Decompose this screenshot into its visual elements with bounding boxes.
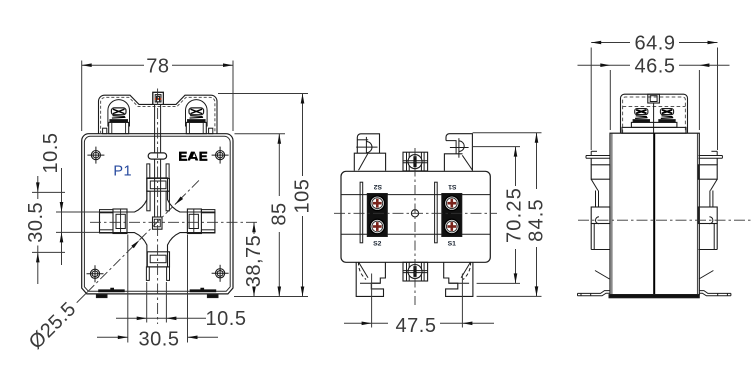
svg-text:10.5: 10.5 — [40, 133, 62, 174]
centre pilot circle — [411, 210, 418, 217]
cover right ear — [209, 128, 213, 134]
mounting screw top-left — [91, 151, 100, 160]
body parting line lower — [341, 233, 490, 235]
svg-text:105: 105 — [292, 179, 314, 214]
horizontal centre line — [90, 221, 258, 223]
side view top block — [648, 94, 660, 103]
svg-text:78: 78 — [146, 56, 169, 78]
diagonal centre line for diameter — [87, 180, 199, 292]
svg-text:10.5: 10.5 — [206, 308, 247, 330]
dimension 46,5 (side top) — [609, 70, 611, 130]
svg-text:P1: P1 — [113, 164, 132, 180]
CT main body outline (front view) — [82, 134, 233, 294]
side view terminal box — [621, 94, 688, 133]
svg-text:S2: S2 — [373, 183, 382, 190]
clamp slider shaft (lower) — [154, 159, 156, 217]
dimension 84,5 (right of top view) — [473, 132, 542, 134]
dimension 30,5 (left) — [37, 176, 39, 199]
bottom foot bar right — [190, 288, 217, 292]
terminal S1 block — [442, 194, 462, 237]
dimension 38,75 (right) — [253, 222, 255, 234]
terminal S1 upper screw — [445, 196, 460, 211]
mounting screw bottom-left — [90, 269, 99, 278]
top clamp block — [147, 178, 170, 191]
svg-text:30.5: 30.5 — [139, 329, 180, 351]
terminal S2 side plate — [360, 182, 363, 243]
side screw left — [635, 109, 648, 115]
left clamp block — [113, 209, 127, 234]
right P-terminal terminal washer plate — [188, 120, 206, 123]
din clip bottom-left — [356, 262, 385, 296]
side view dashed shelf line — [623, 106, 686, 108]
side body chamfer left — [595, 271, 610, 280]
cover centre screw red mark — [155, 98, 162, 100]
svg-text:30.5: 30.5 — [25, 202, 47, 243]
side rail left — [586, 151, 610, 249]
bottom snap tab right — [207, 295, 218, 298]
left P-terminal terminal pedestal — [109, 122, 129, 133]
side view terminal box dashed inner — [623, 97, 686, 133]
top centre fixing block — [403, 152, 428, 171]
side foot flange left — [578, 291, 610, 296]
bottom clamp block — [147, 252, 169, 267]
svg-text:85: 85 — [268, 202, 290, 225]
right clamp block — [187, 209, 201, 234]
side foot flange right — [699, 291, 731, 296]
side shelf base — [622, 127, 686, 133]
dimension 105 (right) — [218, 93, 308, 95]
svg-text:S1: S1 — [448, 183, 457, 190]
side body bottom thick base — [609, 295, 699, 298]
din clip bottom-right — [444, 262, 473, 296]
terminal S2 lower screw — [370, 219, 385, 234]
dimension 70,25 (right of top view) — [473, 146, 520, 148]
top-view body outline — [341, 171, 490, 262]
cover left ear — [103, 128, 107, 134]
din clip top-right — [446, 134, 472, 171]
side screw shelf — [631, 122, 677, 127]
terminal cover inner dashed line — [101, 97, 215, 133]
dimension 10,5 (left) — [32, 191, 65, 193]
terminal cover outline (solid) — [99, 92, 218, 133]
svg-text:84.5: 84.5 — [525, 198, 547, 242]
slider end block — [153, 217, 163, 229]
right clamp legs — [201, 210, 215, 213]
svg-text:S2: S2 — [373, 241, 382, 248]
dimension 30,5 (bottom) — [127, 235, 129, 343]
cable window opening — [100, 178, 215, 267]
din clip top-left — [354, 134, 385, 171]
svg-text:Ø25.5: Ø25.5 — [25, 298, 81, 354]
side body inner edge lines — [611, 133, 613, 294]
left P-terminal terminal washer plate — [110, 120, 128, 123]
clamp slider shaft (upper) — [154, 104, 156, 152]
left P-terminal terminal screw head — [111, 108, 126, 115]
left clamp legs — [100, 210, 114, 213]
slider side bracket left — [147, 164, 150, 179]
right P-terminal terminal screw head — [189, 108, 204, 115]
right P-terminal terminal arch — [186, 100, 208, 127]
cover centre screw block — [153, 92, 164, 104]
terminal S2 upper screw — [370, 196, 385, 211]
right P-terminal terminal spring washer — [190, 115, 202, 118]
terminal S1 lower screw — [445, 219, 460, 234]
bottom foot bar left — [98, 288, 124, 292]
slider side bracket right — [166, 164, 169, 179]
clamp slider knob — [148, 153, 166, 159]
dimension 78 (top) — [81, 61, 83, 132]
dimension 10,5 (bottom) — [146, 282, 148, 323]
svg-text:64.9: 64.9 — [635, 33, 676, 55]
side centre stem — [653, 103, 655, 133]
svg-text:70.25: 70.25 — [504, 187, 526, 243]
dimension 85 (right) — [235, 133, 286, 135]
svg-text:38,75: 38,75 — [243, 235, 265, 288]
left P-terminal terminal spring washer — [113, 115, 125, 118]
side view horizontal centre line — [578, 219, 751, 221]
top-view horizontal centre line — [334, 212, 497, 214]
mounting screw bottom-right — [216, 269, 225, 278]
top-view vertical centre line — [414, 148, 416, 305]
body parting line upper — [341, 194, 490, 196]
side view main body — [610, 133, 699, 294]
diameter leader solid segment — [77, 292, 88, 303]
svg-text:47.5: 47.5 — [396, 315, 437, 337]
side rail right — [698, 151, 722, 249]
dimension 64,9 (side top) — [590, 48, 592, 151]
terminal S2 block — [367, 194, 387, 237]
terminal S1 side plate — [435, 182, 438, 243]
diameter arrow upper — [175, 197, 183, 205]
EAE logo — [179, 152, 207, 161]
vertical centre line — [157, 89, 159, 325]
bottom centre fixing block — [403, 262, 428, 281]
left P-terminal terminal arch — [108, 100, 130, 127]
svg-text:S1: S1 — [448, 241, 457, 248]
svg-text:46.5: 46.5 — [635, 56, 676, 78]
side body chamfer right — [699, 271, 714, 280]
body inner wall line — [84, 136, 230, 291]
top clamp legs — [147, 191, 150, 211]
mounting screw top-right — [216, 151, 225, 160]
dimension 47,5 (bottom of top view) — [371, 274, 373, 328]
diameter arrow lower — [131, 240, 139, 248]
bottom clamp legs — [146, 267, 149, 281]
bottom snap tab left — [96, 295, 107, 298]
side body centre split line — [653, 133, 655, 294]
side screw right — [660, 109, 673, 115]
right P-terminal terminal pedestal — [186, 122, 206, 133]
